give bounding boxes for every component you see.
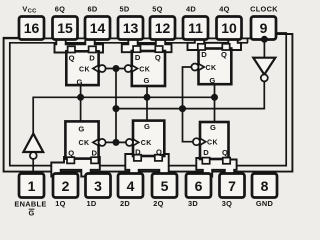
wedge FF2 CK	[133, 139, 139, 146]
wire clock pin 9 to inverter	[263, 38, 265, 58]
wire G stub FF4/FF3	[214, 84, 216, 122]
overline of G bar	[29, 208, 35, 210]
node enable FF4	[211, 94, 218, 101]
svg-text:Q: Q	[69, 54, 75, 63]
svg-text:6: 6	[195, 178, 203, 194]
wire clock vertical x182.5 to FF4/FF3	[183, 67, 194, 142]
svg-text:Q: Q	[222, 148, 228, 157]
flip-flop FF2 (bottom middle)	[133, 121, 164, 156]
node enable FF5	[144, 94, 151, 101]
pin 3	[86, 174, 111, 198]
svg-text:GND: GND	[256, 199, 274, 208]
wire G stub FF5/FF2	[146, 86, 148, 121]
node clock bus 1	[113, 105, 120, 112]
dynamic input wedges	[93, 64, 206, 146]
svg-text:G: G	[78, 124, 84, 133]
channel apron pins 11,10 to FF4	[188, 33, 242, 50]
tab FF2 D	[134, 155, 141, 161]
svg-text:4D: 4D	[186, 4, 196, 13]
channel apron pins 4,5 to FF2	[125, 154, 168, 177]
pin 9	[251, 17, 276, 40]
bubble FF3 CK	[193, 138, 200, 145]
tab FF6 D	[89, 46, 96, 52]
pin 8	[252, 174, 277, 198]
pin name labels	[14, 4, 278, 217]
node clock bus 2	[179, 105, 186, 112]
svg-text:G: G	[77, 78, 83, 87]
svg-text:3Q: 3Q	[222, 199, 232, 208]
node top CK	[113, 65, 120, 72]
wire G stub FF6/FF1	[80, 85, 82, 122]
svg-text:G: G	[28, 209, 34, 218]
wire clock vertical x116	[115, 69, 117, 143]
inverter U1 clock	[253, 58, 275, 82]
svg-text:15: 15	[57, 20, 73, 36]
bubble FF4 CK	[191, 64, 198, 71]
tab FF4 Q	[222, 44, 229, 50]
svg-text:D: D	[201, 50, 207, 59]
channel apron pins 2,3 to FF1	[51, 157, 100, 177]
svg-text:12: 12	[155, 20, 171, 36]
flip-flop FF5 (top middle)	[132, 51, 165, 86]
svg-text:D: D	[203, 148, 209, 157]
svg-text:5: 5	[161, 178, 169, 194]
latch pin letters	[68, 50, 228, 158]
tab FF6 Q	[68, 46, 75, 52]
body top edge	[4, 37, 251, 39]
wire inverter output to clock bus	[116, 81, 264, 109]
latch boxes	[65, 49, 231, 160]
svg-text:D: D	[135, 148, 141, 157]
svg-text:5D: 5D	[119, 4, 129, 13]
svg-text:4: 4	[127, 178, 135, 194]
svg-text:6D: 6D	[87, 4, 97, 13]
channel apron pins 13,12 to FF5	[122, 34, 172, 52]
flip-flop FF1 (bottom left)	[65, 121, 98, 158]
wedge FF6 CK	[93, 65, 99, 72]
node bottom CK	[113, 139, 120, 146]
svg-text:1: 1	[28, 178, 36, 194]
svg-text:10: 10	[221, 20, 237, 36]
flip-flop FF6 (top left)	[66, 51, 98, 85]
svg-text:2Q: 2Q	[153, 199, 163, 208]
pin 11	[183, 17, 208, 40]
bubble inverter	[261, 74, 268, 81]
svg-text:5Q: 5Q	[152, 4, 162, 13]
pin 14	[85, 17, 110, 40]
tab FF5 D	[133, 46, 140, 52]
svg-text:CK: CK	[139, 66, 150, 73]
svg-text:G: G	[210, 123, 216, 132]
pin 1	[19, 174, 44, 198]
svg-text:14: 14	[90, 20, 106, 36]
svg-text:Q: Q	[155, 53, 161, 62]
inversion bubbles	[99, 64, 200, 146]
svg-text:CK: CK	[141, 140, 152, 147]
buffer U2 enable	[23, 134, 43, 159]
wedge FF5 CK	[132, 65, 138, 72]
tab FF4 D	[198, 44, 205, 50]
svg-text:3: 3	[94, 178, 102, 194]
tab FF3 D	[202, 158, 209, 164]
svg-text:D: D	[135, 53, 141, 62]
svg-text:7: 7	[228, 178, 236, 194]
tab FF1 D	[91, 157, 98, 163]
wire enable buffer to pin 1	[32, 159, 34, 176]
svg-text:6Q: 6Q	[55, 4, 65, 13]
pin 16	[19, 17, 44, 40]
bubble enable buffer	[30, 152, 37, 159]
pin 4	[118, 174, 143, 198]
wire top CK line FF6-FF5	[103, 68, 127, 70]
node enable FF6	[77, 94, 84, 101]
svg-text:CK: CK	[79, 66, 90, 73]
svg-text:3D: 3D	[188, 199, 198, 208]
flip-flop FF3 (bottom right)	[200, 122, 229, 159]
pin 15	[53, 17, 78, 40]
wedge FF4 CK	[199, 64, 205, 71]
svg-text:Q: Q	[68, 149, 74, 158]
tab FF3 Q	[223, 158, 230, 164]
pin 13	[118, 17, 143, 40]
svg-text:G: G	[144, 122, 150, 131]
bubble FF1 CK	[99, 139, 106, 146]
svg-text:8: 8	[261, 178, 269, 194]
bubble FF5 CK	[125, 65, 132, 72]
pin boxes top row	[19, 17, 277, 198]
wedge FF1 CK	[93, 139, 99, 146]
svg-text:CLOCK: CLOCK	[250, 4, 278, 13]
svg-text:Q: Q	[221, 50, 227, 59]
svg-text:Q: Q	[156, 148, 162, 157]
IC body outline	[4, 34, 293, 172]
pin 10	[217, 17, 242, 40]
svg-text:G: G	[209, 76, 215, 85]
svg-text:11: 11	[188, 20, 203, 36]
svg-text:2D: 2D	[120, 199, 130, 208]
svg-text:CK: CK	[207, 140, 218, 147]
pin 5	[152, 174, 177, 198]
svg-text:2: 2	[62, 178, 70, 194]
svg-text:G: G	[143, 76, 149, 85]
pin 2	[53, 174, 78, 198]
tab FF5 Q	[155, 46, 162, 52]
channel apron pins 6,7 to FF3	[196, 158, 236, 177]
pin 12	[150, 17, 175, 40]
tab FF1 Q	[67, 157, 74, 163]
flip-flop FF4 (top right)	[199, 49, 232, 85]
svg-text:D: D	[92, 149, 98, 158]
svg-text:16: 16	[24, 20, 40, 36]
svg-text:9: 9	[260, 20, 268, 36]
tab FF2 Q	[155, 155, 162, 161]
svg-text:4Q: 4Q	[219, 4, 229, 13]
bubble FF2 CK	[126, 139, 133, 146]
wire GND pin 8 stub	[264, 172, 266, 176]
pin 7	[220, 174, 245, 198]
wire bottom CK line FF1-FF2	[103, 141, 129, 143]
pin 6	[186, 174, 211, 198]
hollow trace channels: pins to latch tabs	[51, 33, 241, 177]
connection tabs on latches	[67, 44, 230, 164]
node clock pin9	[261, 36, 268, 43]
svg-text:CK: CK	[78, 140, 89, 147]
svg-text:ENABLE: ENABLE	[14, 200, 46, 209]
channel apron pins 15,14 to FF6	[55, 34, 104, 53]
svg-text:CK: CK	[205, 65, 216, 72]
wire clock loop from pin 9	[10, 33, 286, 166]
svg-text:D: D	[89, 54, 95, 63]
wire pin 9 stub boundary	[247, 38, 249, 42]
svg-text:13: 13	[123, 20, 139, 36]
bubble FF6 CK	[99, 65, 106, 72]
wedge FF3 CK	[200, 138, 206, 145]
svg-text:1Q: 1Q	[55, 199, 65, 208]
svg-text:1D: 1D	[86, 199, 96, 208]
wire enable bus	[33, 97, 214, 134]
